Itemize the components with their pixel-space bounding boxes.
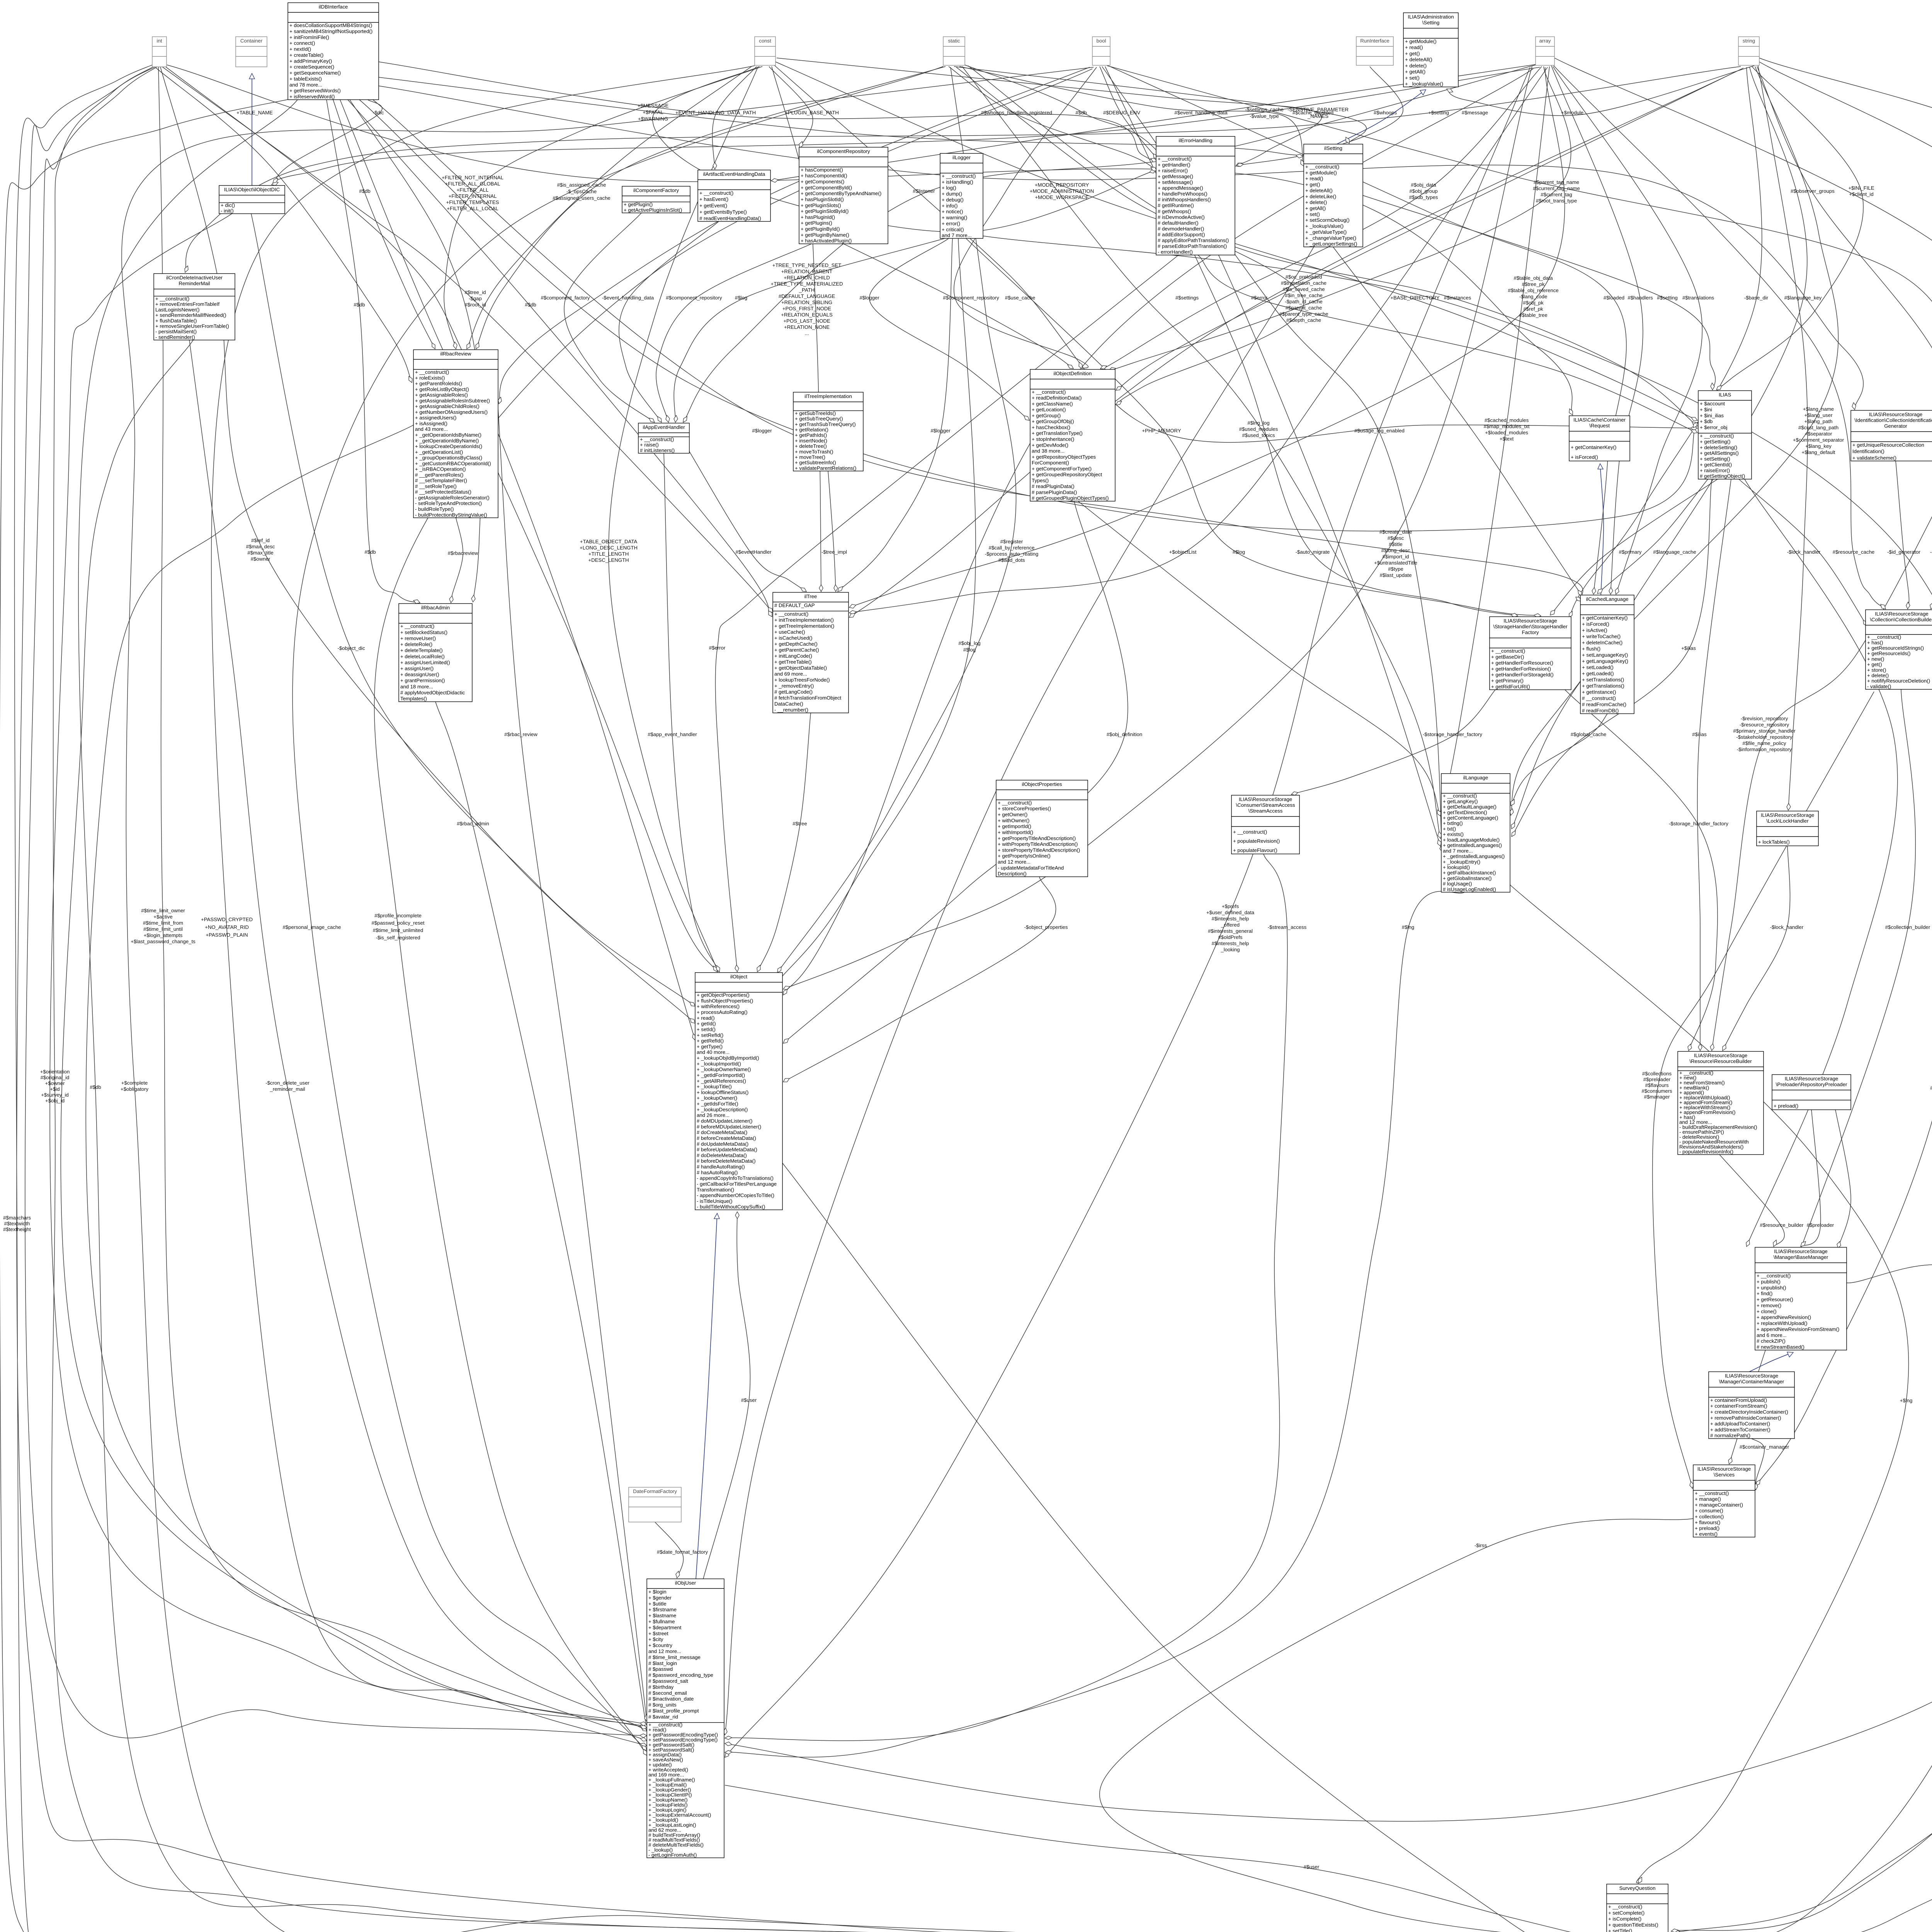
svg-text:and 7 more...: and 7 more... — [942, 233, 972, 238]
svg-text:#$resource_builder: #$resource_builder — [1760, 1222, 1804, 1228]
svg-text:#$register: #$register — [1000, 539, 1023, 544]
svg-text:+MODE_WORKSPACE: +MODE_WORKSPACE — [1035, 194, 1089, 200]
svg-text:+ get(): + get() — [1867, 662, 1882, 667]
svg-text:+ __construct(): + __construct() — [774, 611, 808, 617]
svg-text:+ __construct(): + __construct() — [1443, 793, 1477, 799]
svg-text:+ assignedUsers(): + assignedUsers() — [415, 415, 456, 421]
svg-text:ilTreeImplementation: ilTreeImplementation — [804, 393, 852, 399]
svg-text:+$comment_separator: +$comment_separator — [1793, 437, 1844, 443]
svg-text:+ getGlobalInstance(): + getGlobalInstance() — [1443, 875, 1492, 881]
svg-text:and 26 more...: and 26 more... — [697, 1112, 730, 1118]
svg-text:# beforeMDUpdateListener(): # beforeMDUpdateListener() — [697, 1124, 761, 1129]
svg-text:#$textwidth: #$textwidth — [4, 1221, 30, 1226]
svg-text:+ _getOperationList(): + _getOperationList() — [415, 449, 463, 455]
svg-text:# $last_profile_prompt: # $last_profile_prompt — [648, 1708, 699, 1714]
svg-text:-$lock_handler: -$lock_handler — [1787, 549, 1821, 555]
svg-text:#$table_tree: #$table_tree — [1519, 312, 1547, 318]
svg-text:ILIAS\Administration: ILIAS\Administration — [1408, 14, 1454, 20]
svg-text:# $second_email: # $second_email — [648, 1690, 687, 1696]
svg-text:ilObjUser: ilObjUser — [675, 1580, 696, 1586]
svg-text:-$is_self_registered: -$is_self_registered — [376, 935, 420, 940]
svg-text:+ getDefaultLanguage(): + getDefaultLanguage() — [1443, 804, 1497, 810]
svg-text:+ clone(): + clone() — [1757, 1308, 1777, 1314]
svg-text:-$base_dir: -$base_dir — [1744, 295, 1769, 301]
svg-text:+MODE_REPOSITORY: +MODE_REPOSITORY — [1035, 182, 1089, 188]
svg-text:# fetchTranslationFromObject: # fetchTranslationFromObject — [774, 695, 842, 701]
svg-text:+ getClientId(): + getClientId() — [1700, 462, 1732, 468]
svg-text:#$obj_data: #$obj_data — [1411, 182, 1436, 188]
svg-text:-$settings_cache: -$settings_cache — [1245, 107, 1284, 112]
svg-text:+ setScormDebug(): + setScormDebug() — [1305, 217, 1350, 223]
svg-text:+ raise(): + raise() — [640, 442, 659, 448]
svg-text:static: static — [948, 38, 960, 44]
svg-text:+ set(): + set() — [1305, 211, 1320, 217]
svg-text:# $birthday: # $birthday — [648, 1684, 674, 1690]
svg-text:+ _removeEntry(): + _removeEntry() — [774, 683, 814, 689]
svg-text:+ getRoleListByObject(): + getRoleListByObject() — [415, 386, 469, 392]
svg-text:+ __construct(): + __construct() — [1158, 156, 1192, 162]
svg-text:# getSettingObject(): # getSettingObject() — [1700, 473, 1745, 479]
svg-text:+ getPrimary(): + getPrimary() — [1491, 678, 1524, 684]
svg-text:+ __construct(): + __construct() — [1233, 829, 1267, 835]
svg-text:+ getTreeTable(): + getTreeTable() — [774, 659, 812, 665]
svg-text:+ _lookupObjIdByImportId(): + _lookupObjIdByImportId() — [697, 1055, 759, 1061]
svg-text:+ _lookupEntry(): + _lookupEntry() — [1443, 859, 1480, 865]
svg-text:#$personal_image_cache: #$personal_image_cache — [282, 924, 341, 930]
svg-text:Transformation(): Transformation() — [697, 1187, 734, 1192]
svg-text:\Collection\CollectionBuilder: \Collection\CollectionBuilder — [1870, 617, 1932, 622]
svg-text:#$lng: #$lng — [1402, 924, 1414, 930]
svg-text:+ _getIdForImportId(): + _getIdForImportId() — [697, 1072, 745, 1078]
svg-text:# $inactivation_date: # $inactivation_date — [648, 1696, 694, 1702]
class box ilCron — [154, 274, 235, 340]
svg-text:#$flavours: #$flavours — [1645, 1082, 1669, 1088]
svg-text:+ getHandlerForRevision(): + getHandlerForRevision() — [1491, 666, 1551, 672]
svg-text:+ getLoaded(): + getLoaded() — [1582, 671, 1614, 677]
svg-text:+$lang_name: +$lang_name — [1803, 406, 1834, 412]
svg-text:+ _lookupImportId(): + _lookupImportId() — [697, 1061, 741, 1066]
svg-text:#$log: #$log — [963, 647, 976, 653]
class box AdmSetting — [1403, 13, 1458, 87]
svg-text:-$object_dic: -$object_dic — [337, 645, 365, 651]
svg-text:+ containerFromStream(): + containerFromStream() — [1710, 1403, 1767, 1409]
class box ResourceBuilder — [1678, 1051, 1764, 1155]
svg-text:- getCallbackForTitlesPerLangu: - getCallbackForTitlesPerLanguage — [697, 1181, 777, 1187]
svg-text:+TABLE_OBJECT_DATA: +TABLE_OBJECT_DATA — [580, 539, 638, 544]
svg-text:+ new(): + new() — [1867, 656, 1884, 662]
svg-text:+ raiseError(): + raiseError() — [1700, 468, 1730, 473]
svg-text:+ addStreamToContainer(): + addStreamToContainer() — [1710, 1427, 1770, 1432]
svg-text:#$translation_cache: #$translation_cache — [1281, 280, 1327, 286]
svg-text:+LONG_DESC_LENGTH: +LONG_DESC_LENGTH — [580, 545, 638, 551]
svg-text:#$error: #$error — [1251, 295, 1268, 301]
svg-text:# beforeCreateMetaData(): # beforeCreateMetaData() — [697, 1135, 756, 1141]
svg-text:+ doesCollationSupportMB4Strin: + doesCollationSupportMB4Strings() — [289, 22, 372, 28]
svg-text:+ notififyResourceDeletion(): + notififyResourceDeletion() — [1867, 678, 1930, 684]
svg-text:+ dump(): + dump() — [942, 191, 962, 197]
class box ilSetting — [1304, 144, 1363, 247]
svg-text:+ withPropertyTitleAndDescript: + withPropertyTitleAndDescription() — [998, 841, 1078, 847]
svg-text:#$cache_disabled: #$cache_disabled — [1293, 110, 1333, 116]
svg-text:+ setRefId(): + setRefId() — [697, 1032, 723, 1038]
svg-text:+ _lookupDescription(): + _lookupDescription() — [697, 1107, 748, 1112]
svg-text:+ $db: + $db — [1700, 418, 1713, 424]
svg-text:+ getPropertyIsOnline(): + getPropertyIsOnline() — [998, 853, 1051, 859]
svg-text:#$profile_incomplete: #$profile_incomplete — [374, 913, 422, 918]
svg-text:+ sanitizeMB4StringIfNotSuppor: + sanitizeMB4StringIfNotSupported() — [289, 28, 372, 34]
svg-text:#$title: #$title — [1389, 541, 1402, 547]
svg-text:ilCronDeleteInactiveUser: ilCronDeleteInactiveUser — [166, 275, 223, 281]
svg-text:+ setBlockedStatus(): + setBlockedStatus() — [400, 629, 447, 635]
svg-text:+ notice(): + notice() — [942, 209, 963, 214]
class box ilObjectDefinition — [1030, 369, 1115, 501]
svg-text:#$ref_pk: #$ref_pk — [1523, 306, 1543, 312]
svg-text:- getLoginFromAuth(): - getLoginFromAuth() — [648, 1852, 697, 1858]
svg-text:+ log(): + log() — [942, 185, 956, 191]
svg-text:+ getClassName(): + getClassName() — [1032, 401, 1073, 406]
svg-text:# doUpdateMetaData(): # doUpdateMetaData() — [697, 1141, 748, 1147]
svg-text:- buildRoleType(): - buildRoleType() — [415, 506, 454, 512]
svg-text:+ replaceWithUpload(): + replaceWithUpload() — [1757, 1320, 1808, 1326]
svg-text:#$component_repository: #$component_repository — [943, 295, 999, 301]
class box SurveyQuestion — [1607, 1884, 1668, 1932]
class box string — [1738, 37, 1759, 65]
svg-text:ILIAS\ResourceStorage: ILIAS\ResourceStorage — [1785, 1076, 1838, 1082]
svg-text:Container: Container — [240, 38, 263, 44]
svg-text:+ __construct(): + __construct() — [1700, 433, 1734, 439]
svg-text:+ getRepositoryObjectTypes: + getRepositoryObjectTypes — [1032, 454, 1096, 460]
svg-text:#$translations: #$translations — [1682, 295, 1714, 301]
svg-text:- appendNumberOfCopiesToTitle(: - appendNumberOfCopiesToTitle() — [697, 1192, 774, 1198]
svg-text:# checkZIP(): # checkZIP() — [1757, 1338, 1786, 1344]
svg-text:\Lock\LockHandler: \Lock\LockHandler — [1766, 818, 1809, 824]
svg-text:+ $lastname: + $lastname — [648, 1613, 676, 1619]
svg-text:Identification(): Identification() — [1852, 449, 1884, 454]
svg-text:+ isForced(): + isForced() — [1582, 621, 1609, 627]
svg-text:#$assigned_users_cache: #$assigned_users_cache — [553, 195, 611, 201]
svg-text:#$owner: #$owner — [251, 556, 270, 562]
svg-text:and 38 more...: and 38 more... — [1032, 448, 1065, 454]
svg-text:# logUsage(): # logUsage() — [1443, 881, 1472, 887]
svg-text:#$logger: #$logger — [859, 295, 879, 301]
svg-text:#$import_id: #$import_id — [1383, 554, 1409, 560]
svg-text:string: string — [1743, 38, 1755, 44]
svg-text:+ getComponentByTypeAndName(): + getComponentByTypeAndName() — [801, 190, 881, 196]
svg-text:#$whoops: #$whoops — [1374, 110, 1397, 116]
svg-text:+ getParentRoleIds(): + getParentRoleIds() — [415, 381, 462, 386]
svg-text:#$use_cache: #$use_cache — [1005, 295, 1035, 301]
class box ilLogger — [940, 153, 983, 238]
svg-text:# beforeDeleteMetaData(): # beforeDeleteMetaData() — [697, 1158, 755, 1164]
svg-text:+ _getOperationIdByName(): + _getOperationIdByName() — [415, 438, 479, 444]
svg-text:ilComponentFactory: ilComponentFactory — [633, 187, 679, 193]
svg-text:#$time_limit_from: #$time_limit_from — [143, 920, 183, 926]
svg-text:+EVENT_HANDLING_DATA_PATH: +EVENT_HANDLING_DATA_PATH — [675, 110, 756, 116]
svg-text:+ tableExists(): + tableExists() — [289, 76, 322, 82]
svg-text:#$call_by_reference: #$call_by_reference — [989, 545, 1035, 551]
svg-text:+$lang_user: +$lang_user — [1804, 412, 1833, 418]
svg-text:+ deleteInCache(): + deleteInCache() — [1582, 640, 1622, 646]
svg-text:+$lang_key: +$lang_key — [1805, 443, 1832, 449]
svg-text:#$rbacreview: #$rbacreview — [448, 550, 478, 556]
svg-text:and 18 more...: and 18 more... — [400, 684, 433, 689]
svg-text:#$consumers: #$consumers — [1641, 1088, 1672, 1094]
svg-text:- init(): - init() — [221, 208, 234, 214]
svg-text:...: ... — [805, 330, 809, 336]
svg-text:# newStreamBased(): # newStreamBased() — [1757, 1344, 1804, 1350]
svg-text:#$table_obj_reference: #$table_obj_reference — [1508, 287, 1558, 293]
svg-text:#$log: #$log — [1233, 549, 1245, 555]
svg-text:+ $city: + $city — [648, 1636, 663, 1642]
svg-text:+ getLangKey(): + getLangKey() — [1443, 798, 1478, 804]
svg-text:+ setSetting(): + setSetting() — [1700, 456, 1730, 462]
svg-text:ILIAS\ResourceStorage: ILIAS\ResourceStorage — [1239, 796, 1293, 802]
svg-text:+RELATION_NONE: +RELATION_NONE — [784, 324, 830, 330]
svg-text:ilRbacAdmin: ilRbacAdmin — [421, 605, 450, 611]
svg-text:-$_opsCache: -$_opsCache — [566, 189, 597, 194]
svg-text:\Manager\ContainerManager: \Manager\ContainerManager — [1719, 1379, 1784, 1384]
svg-text:#$collections: #$collections — [1642, 1071, 1672, 1077]
svg-text:+ isAssigned(): + isAssigned() — [415, 420, 447, 426]
svg-text:# getWhoops(): # getWhoops() — [1158, 208, 1191, 214]
svg-text:- appendCopyInfoToTranslations: - appendCopyInfoToTranslations() — [697, 1175, 774, 1181]
svg-text:+FILTER_ALL_GLOBAL: +FILTER_ALL_GLOBAL — [445, 181, 500, 187]
svg-text:+ _lookupOwner(): + _lookupOwner() — [697, 1095, 737, 1101]
class box int — [152, 37, 167, 67]
svg-text:SurveyQuestion: SurveyQuestion — [1619, 1885, 1656, 1891]
svg-text:#$ilias: #$ilias — [1692, 731, 1707, 737]
class box ilObjUser — [647, 1579, 724, 1858]
svg-text:+ getUniqueResourceCollection: + getUniqueResourceCollection — [1852, 442, 1924, 448]
class box CollBuilder — [1866, 610, 1932, 689]
svg-text:+ _lookupTitle(): + _lookupTitle() — [697, 1084, 732, 1090]
svg-text:-$gap: -$gap — [469, 296, 482, 301]
svg-text:+$owner: +$owner — [45, 1080, 65, 1086]
svg-text:int: int — [157, 38, 162, 44]
svg-text:+$untranslatedTitle: +$untranslatedTitle — [1374, 560, 1417, 566]
svg-text:+ assignUserLimited(): + assignUserLimited() — [400, 660, 450, 665]
class box CacheRequest — [1569, 416, 1630, 461]
svg-text:+ isHandling(): + isHandling() — [942, 179, 973, 185]
svg-text:- setRoleTypeAndProtection(): - setRoleTypeAndProtection() — [415, 500, 482, 506]
svg-text:ILIAS\ResourceStorage: ILIAS\ResourceStorage — [1875, 611, 1929, 617]
svg-text:# __setTemplateFilter(): # __setTemplateFilter() — [415, 478, 467, 483]
svg-text:#$container_manager: #$container_manager — [1740, 1444, 1789, 1450]
svg-text:- errorHandler(): - errorHandler() — [1158, 249, 1193, 255]
svg-text:+ _getOperationIdsByName(): + _getOperationIdsByName() — [415, 432, 481, 438]
svg-text:-$storage_handler_factory: -$storage_handler_factory — [1423, 731, 1482, 737]
svg-text:#$resource_cache: #$resource_cache — [1833, 549, 1875, 555]
svg-text:+ getResource(): + getResource() — [1757, 1297, 1793, 1303]
svg-text:+ deassignUser(): + deassignUser() — [400, 672, 439, 677]
svg-text:+ getBaseDir(): + getBaseDir() — [1491, 654, 1524, 660]
svg-text:+ getObjectDataTable(): + getObjectDataTable() — [774, 665, 827, 671]
svg-text:+ getSetting(): + getSetting() — [1700, 439, 1731, 445]
svg-text:+ getDepthCache(): + getDepthCache() — [774, 641, 818, 647]
svg-text:# __getParentRoles(): # __getParentRoles() — [415, 472, 463, 478]
svg-text:+ handlePreWhoops(): + handlePreWhoops() — [1158, 191, 1207, 197]
svg-text:#$db: #$db — [359, 188, 370, 194]
svg-text:+ removeUser(): + removeUser() — [400, 635, 436, 641]
svg-text:+ getInstalledLanguages(): + getInstalledLanguages() — [1443, 842, 1502, 848]
class box ilObjectProperties — [996, 780, 1088, 877]
svg-text:-$lang_code: -$lang_code — [1519, 294, 1548, 299]
svg-text:+ getAssignableRolesInSubtree(: + getAssignableRolesInSubtree() — [415, 398, 490, 403]
svg-text:# __construct(): # __construct() — [1582, 696, 1616, 701]
svg-text:+ getEvent(): + getEvent() — [699, 203, 727, 209]
svg-text:#$app_event_handler: #$app_event_handler — [648, 731, 697, 737]
svg-text:+$login_attempts: +$login_attempts — [144, 932, 183, 938]
svg-text:+ raiseError(): + raiseError() — [1158, 168, 1188, 173]
class box ilRbacReview — [413, 350, 498, 518]
svg-text:#$last_update: #$last_update — [1380, 572, 1412, 578]
svg-text:+ consume(): + consume() — [1695, 1508, 1723, 1514]
svg-text:+ removeSingleUserFromTable(): + removeSingleUserFromTable() — [155, 323, 229, 329]
svg-text:+TREE_TYPE_MATERIALIZED: +TREE_TYPE_MATERIALIZED — [771, 281, 843, 287]
class box array — [1536, 37, 1554, 65]
svg-text:DataCache(): DataCache() — [774, 701, 803, 707]
svg-text:+ store(): + store() — [1867, 667, 1886, 673]
svg-text:+ grantPermission(): + grantPermission() — [400, 678, 445, 684]
svg-text:-$information_repository: -$information_repository — [1737, 747, 1792, 752]
svg-text:+ preload(): + preload() — [1774, 1103, 1798, 1109]
svg-text:#$ref_id: #$ref_id — [251, 537, 270, 543]
svg-text:#$rbac_review: #$rbac_review — [504, 731, 537, 737]
class box ilAppEventHandler — [638, 423, 689, 453]
svg-text:+ writeToCache(): + writeToCache() — [1582, 634, 1621, 639]
svg-text:ILIAS\ResourceStorage: ILIAS\ResourceStorage — [1869, 412, 1923, 417]
svg-text:+ lookupOfflineStatus(): + lookupOfflineStatus() — [697, 1089, 748, 1095]
svg-text:+ debug(): + debug() — [942, 197, 964, 202]
class box ILIAS — [1698, 391, 1752, 479]
svg-text:#$whoops_handlers_registered: #$whoops_handlers_registered — [981, 110, 1052, 116]
svg-text:+ __construct(): + __construct() — [155, 296, 189, 302]
svg-text:+ manageContainer(): + manageContainer() — [1695, 1502, 1743, 1508]
svg-text:and 7 more...: and 7 more... — [1443, 848, 1473, 854]
svg-text:- validate(): - validate() — [1867, 684, 1891, 689]
svg-text:+ hasCheckbox(): + hasCheckbox() — [1032, 425, 1070, 430]
svg-text:#$obj_pk: #$obj_pk — [1523, 300, 1544, 306]
class box ilTreeImplementation — [793, 392, 863, 471]
svg-text:bool: bool — [1097, 38, 1106, 44]
svg-text:# $password_salt: # $password_salt — [648, 1678, 688, 1684]
svg-text:#$sub_types: #$sub_types — [1409, 194, 1438, 200]
svg-text:+ set(): + set() — [1405, 75, 1420, 81]
svg-text:+ getComponentForType(): + getComponentForType() — [1032, 466, 1092, 471]
svg-text:+ flavours(): + flavours() — [1695, 1519, 1720, 1525]
svg-text:ilLanguage: ilLanguage — [1463, 775, 1488, 781]
svg-text:#$listener: #$listener — [913, 188, 935, 194]
svg-text:#$parent_tag_name: #$parent_tag_name — [1534, 179, 1579, 185]
svg-text:+$objectList: +$objectList — [1169, 549, 1197, 555]
svg-text:#DEFAULT_LANGUAGE: #DEFAULT_LANGUAGE — [779, 293, 835, 299]
svg-text:+ getAssignableRoles(): + getAssignableRoles() — [415, 392, 468, 398]
svg-text:-$tree_impl: -$tree_impl — [821, 549, 847, 555]
svg-text:_reminder_mail: _reminder_mail — [270, 1086, 305, 1092]
svg-text:#$component_factory: #$component_factory — [541, 295, 590, 301]
svg-text:# readPluginData(): # readPluginData() — [1032, 483, 1075, 489]
svg-text:+ setComplete(): + setComplete() — [1608, 1910, 1645, 1916]
svg-text:+ sendReminderMailIfNeeded(): + sendReminderMailIfNeeded() — [155, 312, 226, 318]
svg-text:+ processAutoRating(): + processAutoRating() — [697, 1009, 748, 1015]
svg-text:and 69 more...: and 69 more... — [774, 671, 807, 677]
svg-text:#$long_desc: #$long_desc — [1381, 548, 1410, 553]
svg-text:+$text: +$text — [1500, 436, 1514, 442]
svg-text:#$tree_pk: #$tree_pk — [1522, 281, 1545, 287]
svg-text:+PASSWD_PLAIN: +PASSWD_PLAIN — [206, 932, 248, 938]
svg-text:#$events: #$events — [1930, 1085, 1932, 1091]
svg-text:+ $ini: + $ini — [1700, 406, 1712, 412]
svg-text:+$user_defined_data: +$user_defined_data — [1206, 910, 1255, 915]
svg-text:-$resource_repository: -$resource_repository — [1740, 722, 1789, 728]
svg-text:+ __construct(): + __construct() — [1305, 164, 1339, 170]
svg-text:#$component_repository: #$component_repository — [666, 295, 722, 301]
svg-text:# isDevmodeActive(): # isDevmodeActive() — [1158, 214, 1205, 220]
svg-text:#$obj_log: #$obj_log — [958, 640, 980, 646]
svg-text:+ events(): + events() — [1695, 1531, 1718, 1537]
svg-text:+$INI_FILE: +$INI_FILE — [1848, 185, 1874, 191]
svg-text:+ getModule(): + getModule() — [1405, 38, 1437, 44]
svg-text:+ isActive(): + isActive() — [1582, 628, 1607, 633]
svg-text:#$tree_id: #$tree_id — [465, 289, 486, 295]
svg-text:#$user: #$user — [741, 1397, 757, 1403]
svg-text:+ getResourceIds(): + getResourceIds() — [1867, 651, 1911, 656]
svg-text:+ getAll(): + getAll() — [1405, 69, 1425, 75]
svg-text:+ $login: + $login — [648, 1589, 667, 1595]
svg-text:\Identification\CollectionIden: \Identification\CollectionIdentification — [1854, 417, 1932, 423]
svg-text:-$dic: -$dic — [373, 110, 384, 116]
svg-text:ILIAS\ResourceStorage: ILIAS\ResourceStorage — [1694, 1053, 1748, 1058]
svg-text:+ addUploadToContainer(): + addUploadToContainer() — [1710, 1421, 1770, 1427]
svg-text:+ _isRBACOperation(): + _isRBACOperation() — [415, 466, 466, 472]
svg-text:-$object_properties: -$object_properties — [1024, 924, 1068, 930]
svg-text:#$parent_cache: #$parent_cache — [1286, 305, 1322, 311]
svg-text:#$obj_definition: #$obj_definition — [1107, 731, 1142, 737]
svg-text:+ flushDataTable(): + flushDataTable() — [155, 318, 197, 323]
svg-text:\Services: \Services — [1714, 1472, 1735, 1478]
svg-text:+ deleteAll(): + deleteAll() — [1305, 187, 1333, 193]
svg-text:\Preloader\RepositoryPreloader: \Preloader\RepositoryPreloader — [1776, 1082, 1847, 1087]
svg-text:ilTree: ilTree — [804, 594, 817, 599]
svg-text:+ hasPluginSlotId(): + hasPluginSlotId() — [801, 197, 844, 202]
svg-text:+TITLE_LENGTH: +TITLE_LENGTH — [588, 551, 629, 557]
svg-text:Templates(): Templates() — [400, 696, 427, 702]
svg-text:+ $gender: + $gender — [648, 1595, 672, 1600]
svg-text:#$tree: #$tree — [793, 821, 807, 827]
svg-text:#$db: #$db — [354, 302, 365, 308]
svg-text:+ createTable(): + createTable() — [289, 52, 323, 58]
svg-text:+ error(): + error() — [942, 221, 960, 226]
svg-text:#$error: #$error — [709, 645, 726, 651]
svg-text:#$used_modules: #$used_modules — [1239, 426, 1278, 432]
class box ilRbacAdmin — [399, 604, 472, 702]
svg-text:#$is_assigned_cache: #$is_assigned_cache — [557, 182, 606, 188]
svg-text:+ isForced(): + isForced() — [1571, 454, 1598, 460]
svg-text:# $time_limit_message: # $time_limit_message — [648, 1654, 701, 1660]
svg-text:-$value_type: -$value_type — [1250, 113, 1279, 119]
svg-text:+ setMessage(): + setMessage() — [1158, 179, 1193, 185]
svg-text:#$root_id: #$root_id — [465, 302, 486, 308]
class box ilObjectDIC — [219, 185, 285, 214]
svg-text:+ getRelation(): + getRelation() — [795, 427, 828, 433]
class box DateFormatFactory — [629, 1487, 681, 1522]
svg-text:+ getGroup(): + getGroup() — [1032, 413, 1061, 418]
svg-text:# __setRoleType(): # __setRoleType() — [415, 483, 457, 489]
svg-text:+ preload(): + preload() — [1695, 1526, 1719, 1531]
svg-text:+ isCacheUsed(): + isCacheUsed() — [774, 635, 813, 641]
svg-text:ilDBInterface: ilDBInterface — [319, 4, 348, 10]
svg-text:#$textheight: #$textheight — [3, 1226, 31, 1232]
